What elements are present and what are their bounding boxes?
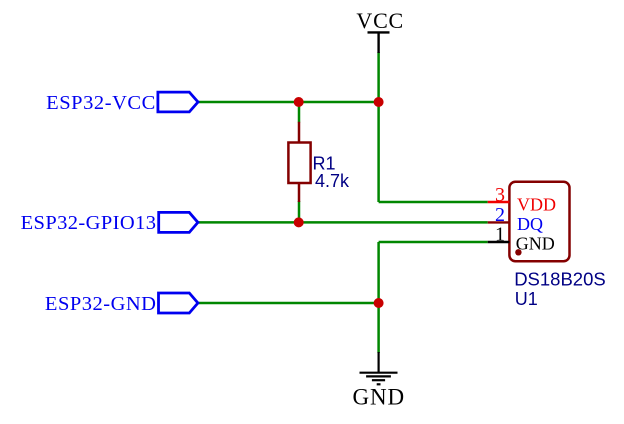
svg-text:DS18B20S: DS18B20S (514, 269, 606, 290)
svg-text:VDD: VDD (517, 194, 556, 214)
svg-text:DQ: DQ (517, 214, 543, 234)
svg-text:U1: U1 (515, 289, 538, 309)
svg-text:ESP32-VCC: ESP32-VCC (46, 92, 156, 114)
svg-text:ESP32-GND: ESP32-GND (45, 293, 157, 315)
svg-text:1: 1 (495, 224, 505, 246)
svg-text:GND: GND (516, 234, 555, 254)
svg-text:4.7k: 4.7k (315, 171, 350, 191)
svg-text:ESP32-GPIO13: ESP32-GPIO13 (21, 212, 157, 234)
svg-text:VCC: VCC (356, 8, 404, 33)
svg-text:GND: GND (353, 384, 406, 409)
svg-text:3: 3 (495, 184, 505, 206)
